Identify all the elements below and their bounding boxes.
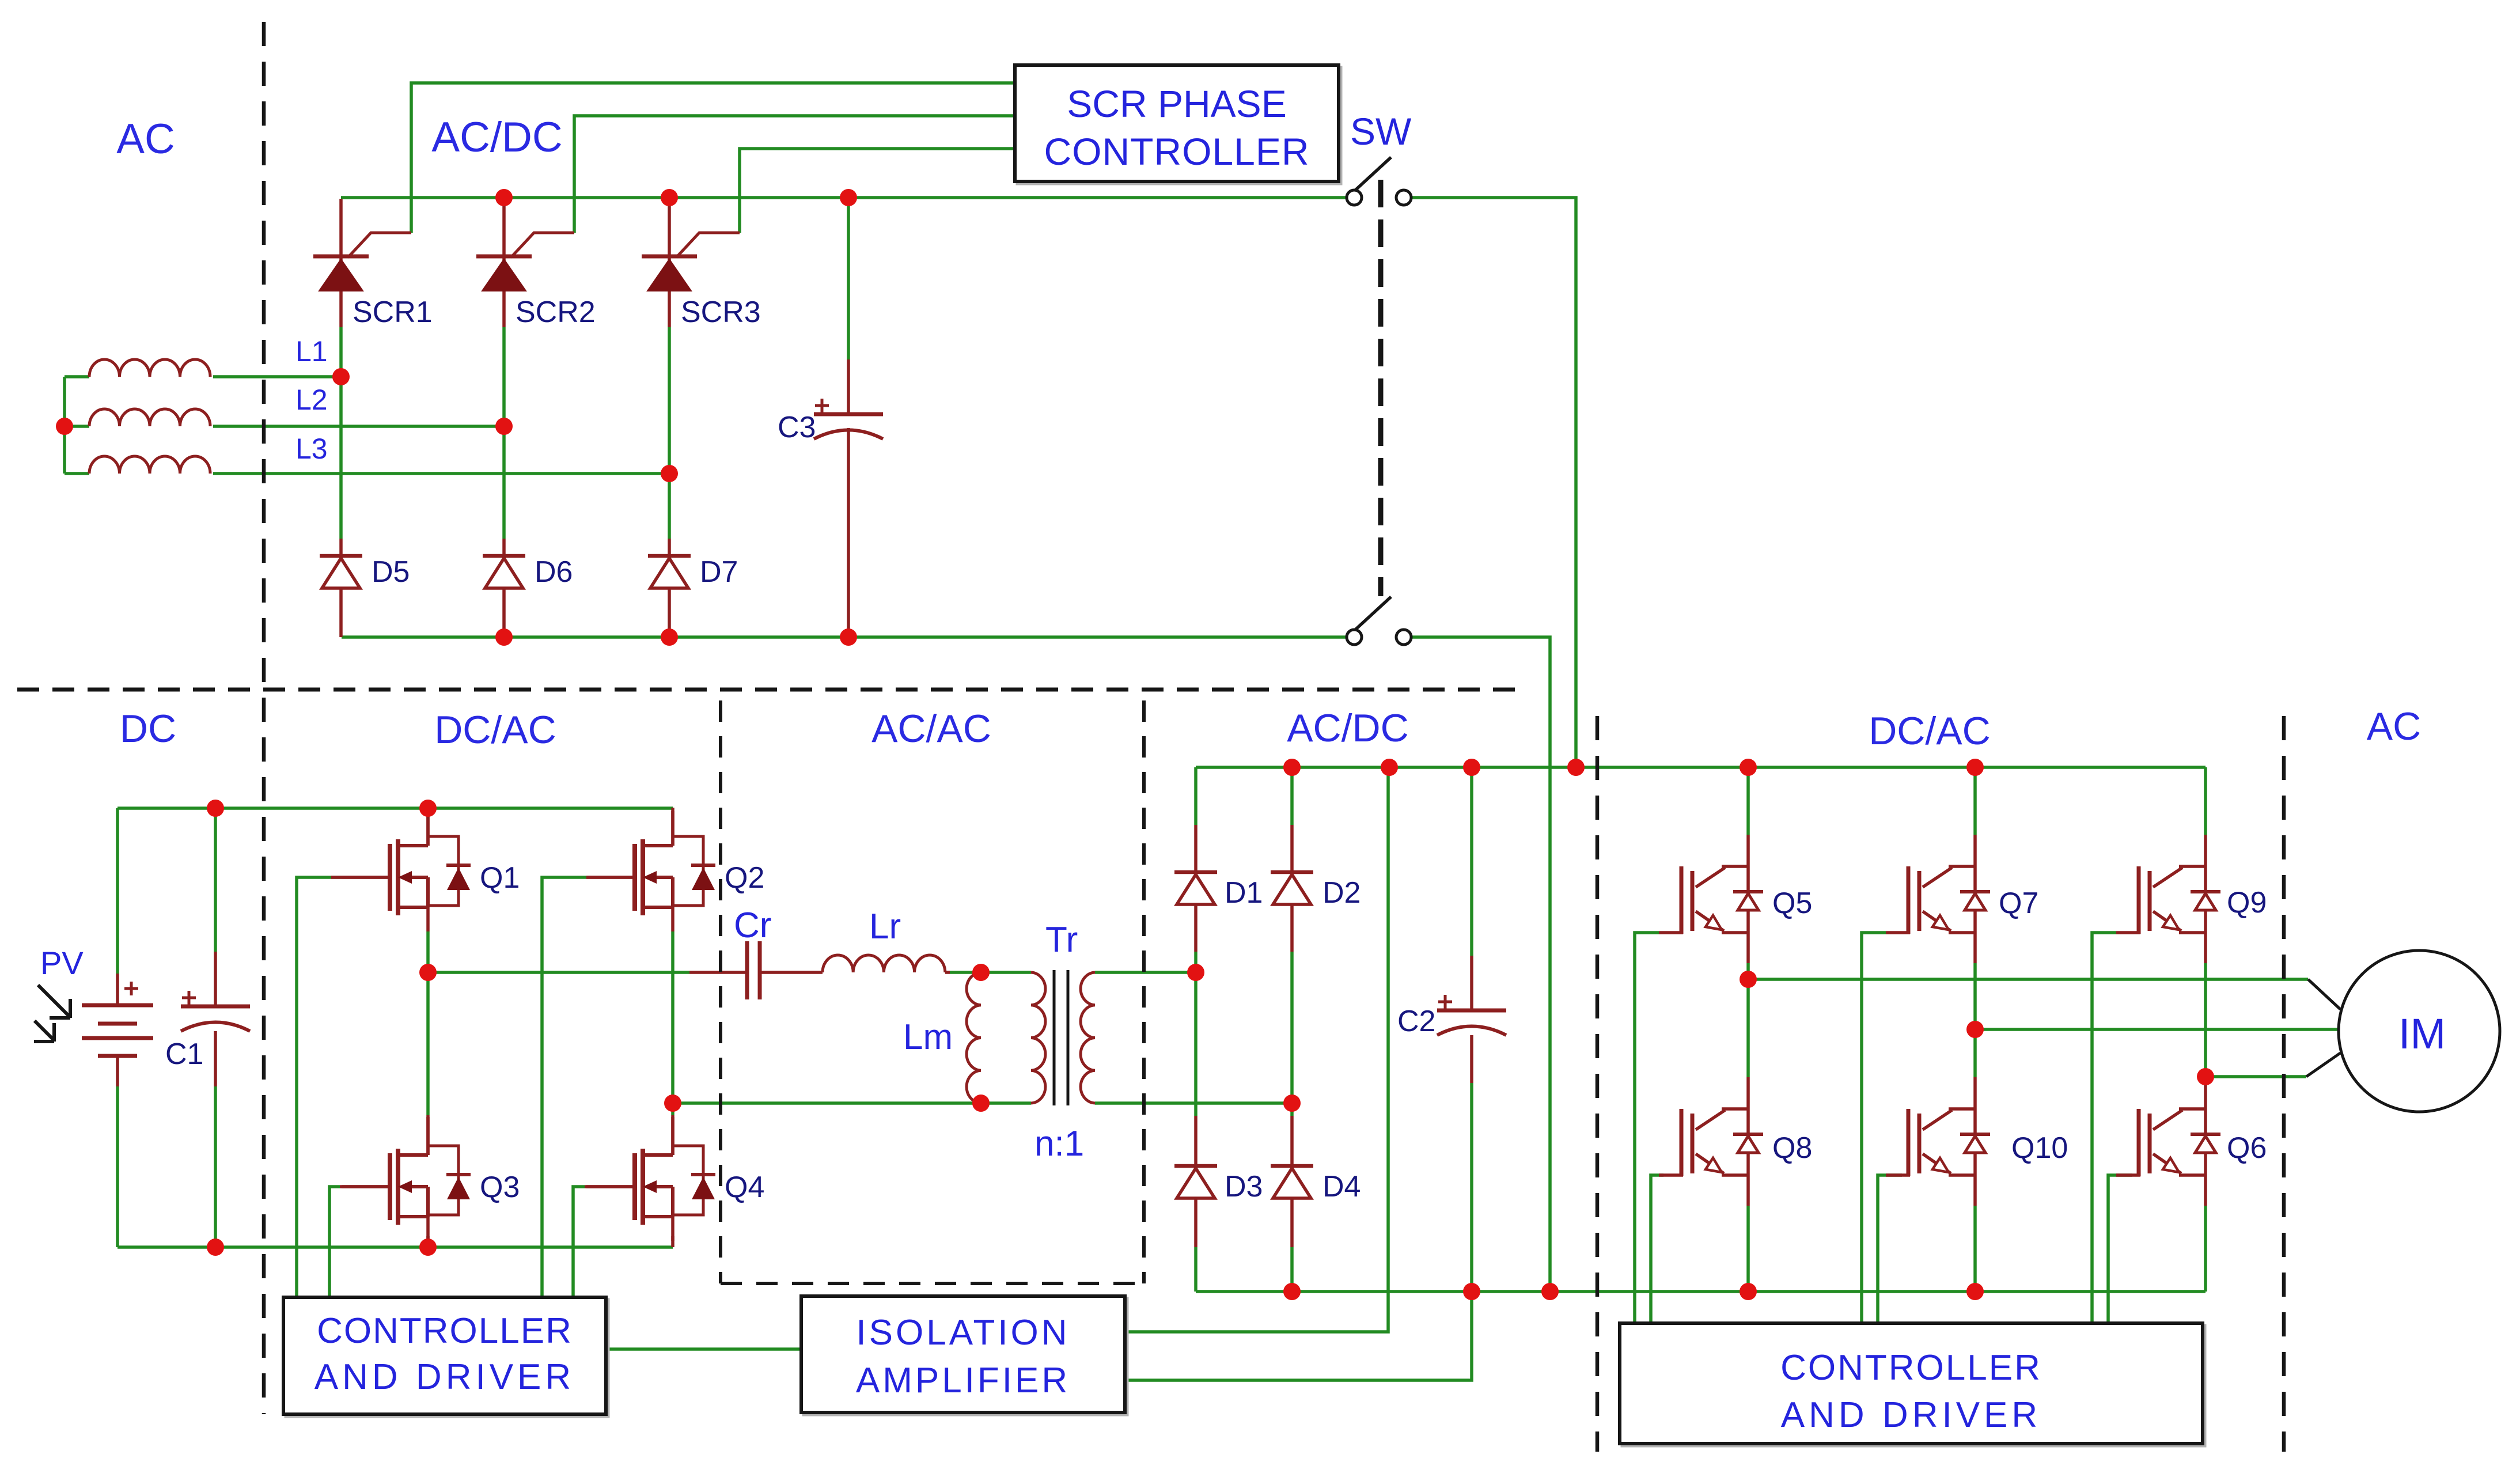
svg-text:Q9: Q9 [2227,886,2267,919]
svg-text:n:1: n:1 [1034,1124,1084,1164]
svg-text:DC/AC: DC/AC [434,708,556,752]
svg-text:AC/DC: AC/DC [431,114,562,161]
svg-text:IM: IM [2398,1010,2446,1058]
svg-text:C1: C1 [165,1037,203,1071]
svg-text:Q8: Q8 [1772,1131,1812,1165]
svg-text:L1: L1 [295,335,328,368]
svg-text:Q3: Q3 [480,1171,520,1204]
svg-text:Q2: Q2 [725,861,764,895]
svg-text:DC/AC: DC/AC [1869,709,1991,753]
svg-text:PV: PV [40,945,84,981]
svg-text:D1: D1 [1225,876,1263,910]
svg-text:Q5: Q5 [1772,887,1812,920]
svg-text:L3: L3 [295,433,328,465]
svg-text:D7: D7 [700,555,738,589]
svg-text:D2: D2 [1322,876,1361,910]
svg-text:AC/DC: AC/DC [1287,706,1409,750]
svg-text:D6: D6 [535,555,573,589]
svg-text:DC: DC [120,707,176,751]
svg-text:Q1: Q1 [480,861,520,895]
svg-text:Q6: Q6 [2227,1131,2267,1165]
svg-text:CONTROLLER: CONTROLLER [317,1311,573,1351]
svg-text:D4: D4 [1322,1170,1361,1203]
svg-text:D5: D5 [372,555,410,589]
svg-text:AC/AC: AC/AC [871,707,991,751]
svg-text:SCR PHASE: SCR PHASE [1067,82,1286,125]
svg-text:AND DRIVER: AND DRIVER [1781,1395,2041,1435]
svg-text:D3: D3 [1225,1170,1263,1203]
svg-text:L2: L2 [295,384,328,416]
svg-text:SW: SW [1350,110,1412,153]
svg-text:SCR3: SCR3 [681,296,761,329]
svg-text:Cr: Cr [734,906,771,945]
svg-text:C3: C3 [778,411,816,444]
svg-text:SCR1: SCR1 [353,296,433,329]
svg-text:Q4: Q4 [725,1171,764,1204]
svg-text:CONTROLLER: CONTROLLER [1780,1348,2042,1388]
svg-text:AC: AC [2367,705,2421,748]
svg-text:C2: C2 [1397,1005,1435,1038]
svg-text:Q7: Q7 [1999,887,2038,920]
svg-text:CONTROLLER: CONTROLLER [1044,130,1309,173]
svg-text:AC: AC [116,116,175,162]
svg-text:Q10: Q10 [2011,1131,2068,1165]
svg-text:SCR2: SCR2 [516,296,596,329]
svg-text:AMPLIFIER: AMPLIFIER [856,1361,1070,1400]
svg-text:Lm: Lm [903,1017,953,1057]
svg-text:Tr: Tr [1045,920,1078,960]
svg-text:ISOLATION: ISOLATION [856,1313,1070,1353]
svg-text:AND DRIVER: AND DRIVER [314,1357,575,1397]
svg-text:Lr: Lr [869,907,901,946]
